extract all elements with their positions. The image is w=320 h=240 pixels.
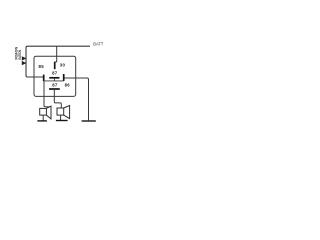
wire horn H1 to ground [42,115,44,121]
svg-text:85: 85 [39,64,45,69]
svg-text:BATT: BATT [93,42,103,48]
svg-text:87: 87 [52,83,58,88]
wire relay coil link 85 to 86 [44,80,64,82]
wire 87 to right horn [54,90,61,108]
wire 85 branch to left horn [44,81,50,107]
svg-text:BUTTON: BUTTON [18,49,22,60]
wire horn H2 to ground [60,115,62,120]
terminal 86 [63,74,65,81]
svg-text:30: 30 [60,63,66,68]
node FROM HORN BUTTON label (rotated) [14,46,21,60]
svg-text:87: 87 [52,71,58,76]
relay K1 outline [34,56,76,96]
wire horn-button branch (left vertical with corners) [26,46,43,77]
wire 86 to right ground [65,78,89,120]
ground right [82,120,96,122]
horn H1 (left speaker) [40,108,47,115]
wire 87 upper stem [53,79,55,81]
ground left [37,120,47,122]
wire BATT feed line [28,45,91,47]
terminal 87 lower [49,88,60,90]
ground middle [56,120,68,122]
connector (horn button lead, double arrow) [22,56,27,60]
terminal 85 [43,75,45,81]
horn H2 (right speaker) [57,108,64,115]
terminal 30 [54,61,57,63]
svg-text:86: 86 [65,83,71,88]
terminal 87 upper [49,77,59,79]
wire battery to terminal 30 [56,46,58,62]
